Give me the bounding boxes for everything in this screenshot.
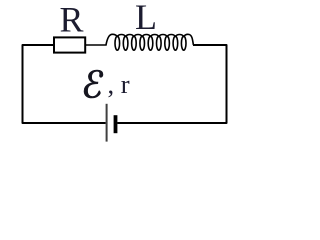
battery: short thick plate (negative) <box>114 115 118 133</box>
svg-text:R: R <box>60 0 84 40</box>
battery: long thin plate (positive) <box>106 104 108 142</box>
wire + inductor L coil humps <box>86 34 194 45</box>
wire: top-left + left side + bottom-left run to battery <box>23 45 106 123</box>
resistor R (box) <box>54 37 85 52</box>
wire: coil exit + right side + bottom-right run to battery <box>117 45 226 123</box>
svg-text:, r: , r <box>108 69 130 99</box>
label EMF script E <box>84 70 103 98</box>
inductor L coil loops <box>115 36 186 50</box>
svg-text:L: L <box>135 0 157 37</box>
